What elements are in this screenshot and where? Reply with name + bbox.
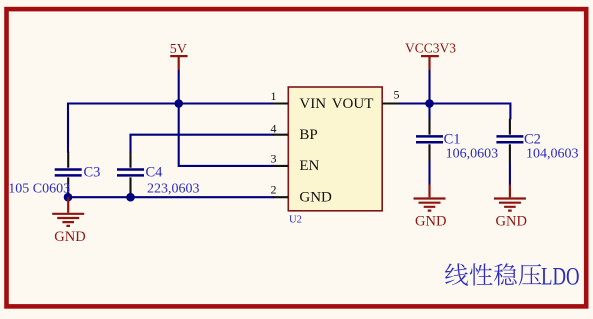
wire C3 lower stub <box>67 193 69 198</box>
wire C4 lower stub <box>129 193 131 198</box>
svg-text:U2: U2 <box>289 214 302 225</box>
svg-text:3: 3 <box>271 152 277 166</box>
capacitor C4 <box>117 170 144 176</box>
wire GND row (pin 2 net) <box>68 196 274 198</box>
svg-text:105 C0603: 105 C0603 <box>8 182 70 197</box>
capacitor C1 <box>416 136 443 142</box>
wire EN vertical from 5V node <box>179 104 274 166</box>
svg-text:4: 4 <box>271 121 277 135</box>
svg-text:GND: GND <box>415 214 446 230</box>
junction node D (C4/GND row) <box>126 193 135 202</box>
wire VIN row (pin 1 net) <box>68 102 274 104</box>
svg-text:5V: 5V <box>170 42 187 57</box>
op-amp/regulator U2 body <box>288 87 382 211</box>
ground symbol GND (C3 net) <box>52 197 84 226</box>
wire left vertical to C3 <box>67 103 69 153</box>
svg-text:106,0603: 106,0603 <box>446 146 499 161</box>
svg-text:GND: GND <box>496 214 527 230</box>
svg-text:C2: C2 <box>524 131 541 147</box>
title 线性稳压LDO <box>445 263 541 285</box>
svg-text:C3: C3 <box>84 164 101 180</box>
svg-text:C4: C4 <box>146 164 164 180</box>
svg-text:C1: C1 <box>444 131 461 147</box>
junction node C (C3/GND row) <box>64 193 73 202</box>
svg-text:104,0603: 104,0603 <box>526 146 579 161</box>
svg-text:2: 2 <box>271 183 277 197</box>
svg-text:VIN: VIN <box>299 96 326 112</box>
svg-text:223,0603: 223,0603 <box>147 182 200 197</box>
svg-text:5: 5 <box>394 87 400 101</box>
ground symbol GND (C2) <box>494 185 526 211</box>
svg-text:VCC3V3: VCC3V3 <box>405 41 456 56</box>
capacitor C3 <box>55 170 82 176</box>
wire C2 lower <box>509 161 511 185</box>
svg-text:BP: BP <box>299 127 317 143</box>
wire C1 lower <box>428 161 430 185</box>
power port 5V <box>170 56 187 70</box>
svg-text:LDO: LDO <box>541 264 580 291</box>
power port VCC3V3 <box>421 56 439 70</box>
wire VOUT row (pin 5 net) <box>397 104 510 120</box>
junction node B (VOUT/VCC3V3) <box>425 99 434 108</box>
junction node A (5V/EN) <box>174 99 183 108</box>
capacitor C2 <box>496 136 523 142</box>
svg-text:VOUT: VOUT <box>332 96 374 112</box>
wire BP to C4 <box>131 135 275 153</box>
svg-text:GND: GND <box>54 229 85 245</box>
ground symbol GND (C1) <box>414 185 446 211</box>
svg-text:GND: GND <box>299 189 332 205</box>
svg-text:1: 1 <box>271 89 277 103</box>
U2 pins (black stubs) <box>273 104 399 198</box>
wire 5V vertical <box>178 70 180 104</box>
svg-text:EN: EN <box>299 158 319 174</box>
wire VCC3V3 vertical <box>428 70 430 120</box>
